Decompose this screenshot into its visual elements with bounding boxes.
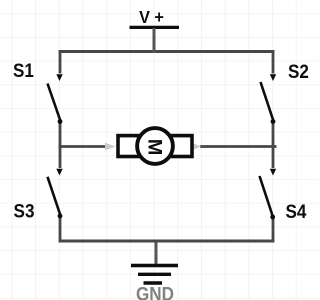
svg-text:M: M (144, 139, 165, 156)
switch S2 bottom contact dot (271, 119, 276, 124)
switch S3 blade (48, 177, 61, 215)
switch S3 bottom contact dot (58, 214, 63, 219)
switch S4 top contact arrowhead (270, 169, 276, 176)
arrowhead light gray on motor left lead (105, 143, 116, 150)
wire left rail middle segment (S1 to S3 through motor node) (59, 123, 62, 168)
wire right rail upper segment (top rail to S2) (272, 50, 275, 74)
wire left rail upper segment (top rail to S1) (59, 50, 62, 74)
switch S1 blade (48, 84, 61, 121)
svg-text:S2: S2 (288, 61, 309, 82)
wire V+ stem down to top rail (153, 28, 156, 53)
ground symbol bar 2 (138, 273, 171, 276)
wire motor right lead to right rail node (200, 145, 277, 148)
wire motor left lead from left rail node (59, 145, 105, 148)
wire right rail middle segment (S2 to S4 through motor node) (272, 123, 275, 168)
switch S2 blade (261, 82, 274, 121)
switch S4 bottom contact dot (270, 215, 275, 220)
svg-text:GND: GND (136, 284, 174, 300)
V+ supply terminal bar (130, 26, 180, 29)
svg-text:S1: S1 (13, 60, 34, 81)
ground symbol bar 3 (144, 281, 163, 284)
switch S2 top contact arrowhead (270, 74, 276, 81)
switch S4 blade (260, 176, 273, 216)
motor M1 right brush block (171, 136, 192, 157)
wire left rail lower segment (S3 to bottom rail) (59, 218, 62, 243)
arrowhead light gray on motor right lead (192, 143, 202, 150)
motor M1 body circle (137, 128, 173, 164)
wire bottom rail from S3 branch to S4 branch (59, 240, 275, 243)
wire top rail from S1 branch to S2 branch (59, 50, 275, 53)
wire right rail lower segment (S4 to bottom rail) (272, 218, 275, 243)
switch S1 bottom contact dot (58, 119, 63, 124)
wire GND stem down from bottom rail (155, 242, 158, 265)
svg-text:S3: S3 (14, 201, 35, 222)
svg-text:V +: V + (139, 7, 164, 27)
motor M1 left brush block (118, 136, 139, 157)
switch S3 top contact arrowhead (56, 169, 62, 176)
ground symbol bar 1 (131, 264, 178, 267)
switch S1 top contact arrowhead (56, 74, 62, 81)
svg-text:S4: S4 (286, 201, 307, 222)
